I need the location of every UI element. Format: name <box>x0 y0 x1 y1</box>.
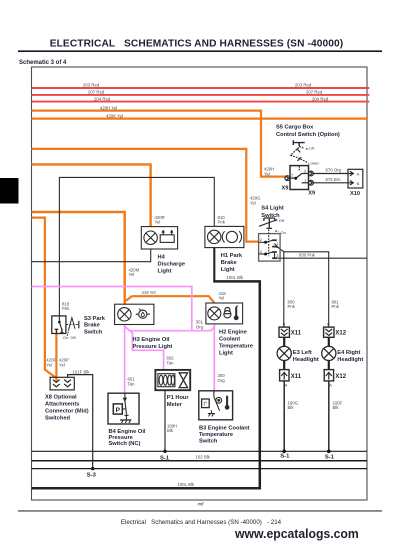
wire 100F Blk <box>328 381 330 451</box>
svg-text:P1 Hour: P1 Hour <box>167 395 190 401</box>
wire 420K Yel <box>32 117 369 119</box>
wire 420R Yel <box>32 164 151 226</box>
wire pink feed from border <box>32 287 192 331</box>
svg-text:Headlight: Headlight <box>293 357 319 363</box>
svg-text:203 Red: 203 Red <box>83 83 100 88</box>
wire 420H Yel <box>32 111 287 177</box>
svg-text:X8 Optional: X8 Optional <box>45 395 77 401</box>
svg-text:Blk: Blk <box>167 428 174 433</box>
connector X12 upper <box>324 327 334 337</box>
svg-text:A: A <box>357 172 360 177</box>
footer rule <box>18 510 382 511</box>
svg-text:207 Red: 207 Red <box>88 90 105 95</box>
svg-text:203 Red: 203 Red <box>295 83 312 88</box>
svg-text:Connector (Mid): Connector (Mid) <box>45 409 89 415</box>
svg-text:100L Blk: 100L Blk <box>178 482 195 487</box>
svg-text:Yel: Yel <box>264 171 270 176</box>
svg-text:E3 Left: E3 Left <box>293 350 312 356</box>
junction S5 pin2 <box>294 177 297 180</box>
wire E3 to X11 lower <box>283 361 285 370</box>
wire pink branch diagonal <box>125 326 133 333</box>
wire 203 Red <box>32 87 370 89</box>
wire 420P Yel <box>55 334 57 382</box>
wire 207 Red <box>32 94 370 96</box>
connector X12 lower <box>324 370 333 381</box>
svg-text:S-1: S-1 <box>160 456 170 462</box>
wire 300 Org <box>213 324 215 391</box>
svg-text:S4 Light: S4 Light <box>261 206 284 212</box>
svg-text:A: A <box>329 382 332 387</box>
svg-text:Light: Light <box>158 268 172 274</box>
svg-text:S-3: S-3 <box>87 472 97 478</box>
bus line S-3 <box>32 468 368 470</box>
svg-text:Pressure Light: Pressure Light <box>133 344 173 350</box>
svg-text:Headlight: Headlight <box>337 357 363 363</box>
wire 100L Blk thick <box>213 248 215 282</box>
wire 830 Pnk <box>275 253 368 258</box>
wire H4 return to border <box>32 249 151 262</box>
svg-text:Lift: Lift <box>309 145 315 150</box>
svg-text:830 Pnk: 830 Pnk <box>299 252 316 257</box>
svg-text:S5 Cargo Box: S5 Cargo Box <box>276 125 314 131</box>
svg-text:675 Brn: 675 Brn <box>326 177 342 182</box>
svg-text:Switch: Switch <box>261 213 280 219</box>
svg-text:H1 Park: H1 Park <box>221 253 243 259</box>
wire 801 Pnk <box>284 252 329 327</box>
wire 101F Blk <box>68 375 93 469</box>
svg-text:Switch: Switch <box>84 329 103 335</box>
svg-text:B4 Engine Oil: B4 Engine Oil <box>109 429 146 435</box>
svg-text:B: B <box>357 181 360 186</box>
svg-text:Org: Org <box>196 325 204 330</box>
svg-text:Pnk: Pnk <box>218 220 226 225</box>
svg-text:X11: X11 <box>291 331 302 337</box>
svg-text:204 Red: 204 Red <box>312 96 329 101</box>
lamp H4 Discharge Light <box>141 227 177 249</box>
svg-text:Pressure: Pressure <box>109 435 133 441</box>
svg-text:On: On <box>281 230 286 235</box>
lamp H3 Engine Oil Pressure Light <box>115 304 154 324</box>
svg-text:Brake: Brake <box>84 323 100 329</box>
meter P1 Hour Meter <box>155 370 190 390</box>
svg-text:102 Blk: 102 Blk <box>196 454 211 459</box>
svg-text:P: P <box>116 407 121 414</box>
svg-text:X10: X10 <box>350 191 360 197</box>
switch S4 Light <box>259 218 281 261</box>
svg-text:Switched: Switched <box>45 416 70 422</box>
lamp E3 Left Headlight <box>277 346 291 360</box>
switch S5 Cargo Box Control <box>285 140 313 189</box>
lamp E4 Right Headlight <box>322 346 336 360</box>
svg-text:Temperature: Temperature <box>219 343 253 349</box>
svg-text:X12: X12 <box>335 374 346 380</box>
wire 810 Pnk S3 to H1 <box>59 177 214 316</box>
svg-text:B3 Engine Coolant: B3 Engine Coolant <box>199 425 250 431</box>
svg-text:mif: mif <box>198 501 205 506</box>
svg-text:H3 Engine Oil: H3 Engine Oil <box>133 337 170 343</box>
svg-text:Off: Off <box>279 218 285 223</box>
switch B4 Engine Oil Pressure <box>108 393 139 424</box>
svg-text:Lower: Lower <box>308 160 320 165</box>
junction X12 S-1 <box>327 450 331 454</box>
svg-text:X9: X9 <box>282 185 289 191</box>
wire 100G Blk <box>283 381 285 451</box>
wire 301 Org <box>129 327 214 331</box>
wire 204 Red <box>32 101 370 103</box>
junction X11 S-1 <box>282 450 286 454</box>
switch S3 Park Brake <box>52 316 79 336</box>
wire X11 to E3 <box>283 337 285 346</box>
junction S3 top <box>58 321 61 324</box>
wire 601 Tan <box>124 325 126 394</box>
svg-text:X11: X11 <box>291 374 302 380</box>
wire 602 Tan <box>132 333 163 371</box>
junction S4 pin2 <box>264 241 267 244</box>
wire 420G Yel <box>32 149 259 242</box>
svg-text:Temperature: Temperature <box>199 432 233 438</box>
wire 100H Blk <box>164 390 166 451</box>
wire 419 Yel <box>125 296 215 303</box>
svg-text:101F Blk: 101F Blk <box>73 369 91 374</box>
svg-text:Meter: Meter <box>167 402 183 408</box>
svg-text:Pnk: Pnk <box>288 304 296 309</box>
svg-text:Blk: Blk <box>333 405 340 410</box>
svg-text:ELECTRICAL SCHEMATICS AND HA: ELECTRICAL SCHEMATICS AND HARNESSES (SN … <box>50 39 344 50</box>
black page tab <box>0 178 19 204</box>
svg-text:Light: Light <box>219 350 233 356</box>
svg-text:Pnk: Pnk <box>62 306 70 311</box>
svg-text:Discharge: Discharge <box>158 261 186 267</box>
bus line S-1 <box>32 450 368 452</box>
svg-text:Yel: Yel <box>250 200 256 205</box>
junction P1 S-1 <box>163 450 166 453</box>
junction S4 pin4 <box>264 253 267 256</box>
svg-text:Blk: Blk <box>288 405 295 410</box>
wire X12 to E4 <box>328 337 330 346</box>
svg-text:X9: X9 <box>308 191 315 197</box>
svg-text:Yel: Yel <box>46 362 52 367</box>
bus line middle <box>32 460 368 462</box>
svg-text:100L Blk: 100L Blk <box>227 275 244 280</box>
svg-text:Pnk: Pnk <box>332 304 340 309</box>
svg-text:Yel: Yel <box>129 272 135 277</box>
svg-text:Tan: Tan <box>128 381 136 386</box>
svg-text:Brake: Brake <box>221 260 237 266</box>
svg-text:Yel: Yel <box>219 296 225 301</box>
svg-text:B: B <box>327 322 330 327</box>
connector X11 lower <box>280 370 289 381</box>
svg-text:S-1: S-1 <box>280 453 290 459</box>
svg-text:420H Yel: 420H Yel <box>100 105 117 110</box>
wire 800 Pnk <box>274 244 283 328</box>
connector X11 upper <box>279 327 289 337</box>
junction S-3 <box>91 467 94 470</box>
svg-text:S-1: S-1 <box>325 454 335 460</box>
wire 420M Yel <box>32 212 125 304</box>
wire 420F Yel <box>32 218 56 378</box>
svg-text:B: B <box>283 322 286 327</box>
schematic frame border <box>32 67 368 500</box>
connector X10 <box>313 169 362 188</box>
svg-text:Yel: Yel <box>59 362 65 367</box>
svg-text:419 Yel: 419 Yel <box>142 290 156 295</box>
svg-text:Light: Light <box>221 267 235 273</box>
svg-text:A: A <box>285 382 288 387</box>
svg-text:670 Org: 670 Org <box>326 168 342 173</box>
svg-text:Switch: Switch <box>199 438 218 444</box>
svg-text:207 Red: 207 Red <box>306 90 323 95</box>
svg-text:H4: H4 <box>158 254 166 260</box>
svg-text:H2 Engine: H2 Engine <box>219 329 247 335</box>
svg-text:S3 Park: S3 Park <box>84 316 106 322</box>
wire E4 to X12 lower <box>328 361 330 370</box>
svg-text:www.epcatalogs.com: www.epcatalogs.com <box>234 526 359 540</box>
lamp H1 Park Brake Light <box>205 226 244 247</box>
svg-text:On Off: On Off <box>63 335 77 340</box>
svg-text:X12: X12 <box>335 331 346 337</box>
svg-text:t°: t° <box>204 402 208 408</box>
svg-text:Schematic 3 of 4: Schematic 3 of 4 <box>19 60 67 66</box>
header rule <box>18 50 382 52</box>
svg-text:Switch (NC): Switch (NC) <box>109 441 141 447</box>
svg-text:420K Yel: 420K Yel <box>106 113 123 118</box>
connector X8 <box>50 377 74 390</box>
svg-text:Org: Org <box>218 378 226 383</box>
switch B3 Engine Coolant Temperature <box>199 391 233 420</box>
svg-text:Coolant: Coolant <box>219 336 240 342</box>
svg-text:Attachments: Attachments <box>45 402 79 408</box>
lamp H2 Engine Coolant Temperature Light <box>206 303 243 324</box>
svg-text:Yel: Yel <box>155 220 161 225</box>
svg-text:Electrical Schematics and Ha: Electrical Schematics and Harnesses (SN … <box>121 519 282 526</box>
svg-text:204 Red: 204 Red <box>94 96 111 101</box>
svg-text:E4 Right: E4 Right <box>337 350 360 356</box>
svg-text:Control Switch (Option): Control Switch (Option) <box>276 132 340 138</box>
svg-text:Tan: Tan <box>167 360 175 365</box>
